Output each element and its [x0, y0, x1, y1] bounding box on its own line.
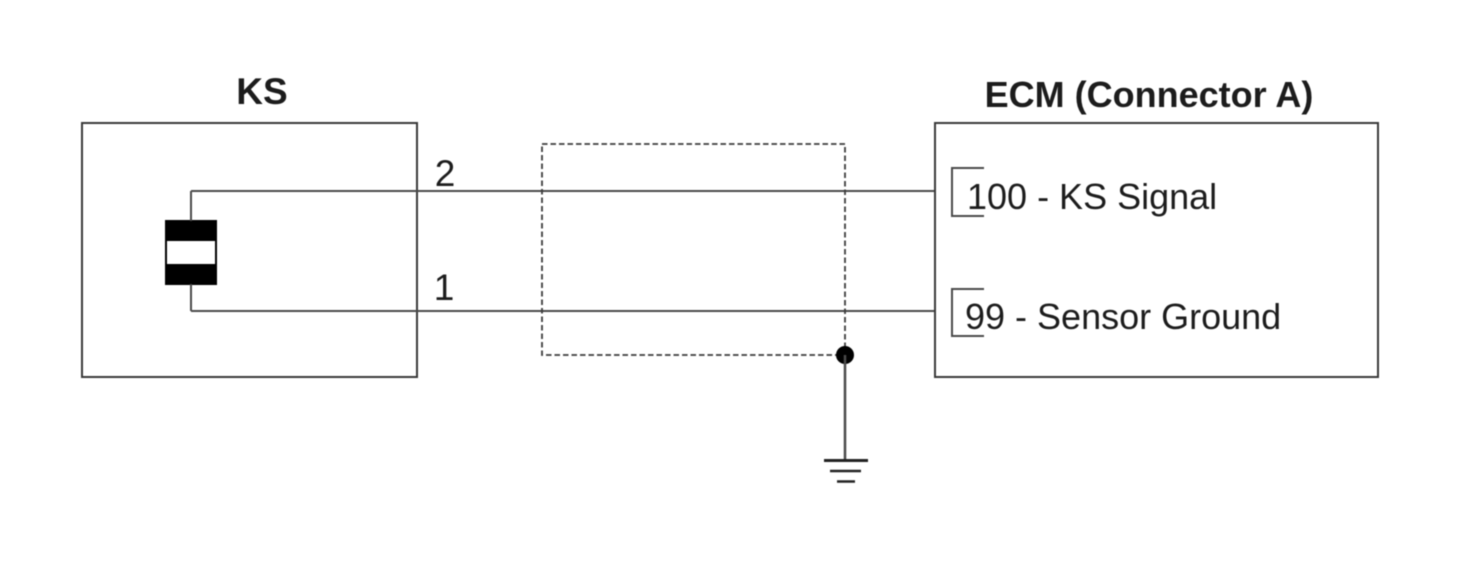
wire pin2 vertical stub	[190, 191, 192, 221]
wire pin1 vertical stub	[190, 284, 192, 311]
KS component box	[82, 123, 417, 377]
pin bracket 100	[952, 168, 984, 216]
svg-text:2: 2	[435, 153, 456, 194]
shielded cable dashed box	[542, 144, 845, 355]
knock sensor piezo element	[165, 220, 217, 285]
pin bracket 99	[952, 289, 984, 336]
ECM connector box	[935, 123, 1378, 377]
wire 1 (KS pin 1 to ECM 99)	[191, 310, 952, 312]
wire 2 (KS pin 2 to ECM 100)	[191, 190, 952, 192]
ground stem wire	[844, 355, 847, 460]
ground symbol	[824, 461, 868, 482]
svg-text:1: 1	[434, 267, 455, 308]
svg-text:99 - Sensor Ground: 99 - Sensor Ground	[965, 296, 1281, 337]
svg-text:ECM (Connector A): ECM (Connector A)	[985, 74, 1314, 115]
shield junction dot	[836, 346, 854, 364]
svg-text:100 - KS Signal: 100 - KS Signal	[967, 176, 1217, 217]
svg-text:KS: KS	[236, 71, 287, 112]
